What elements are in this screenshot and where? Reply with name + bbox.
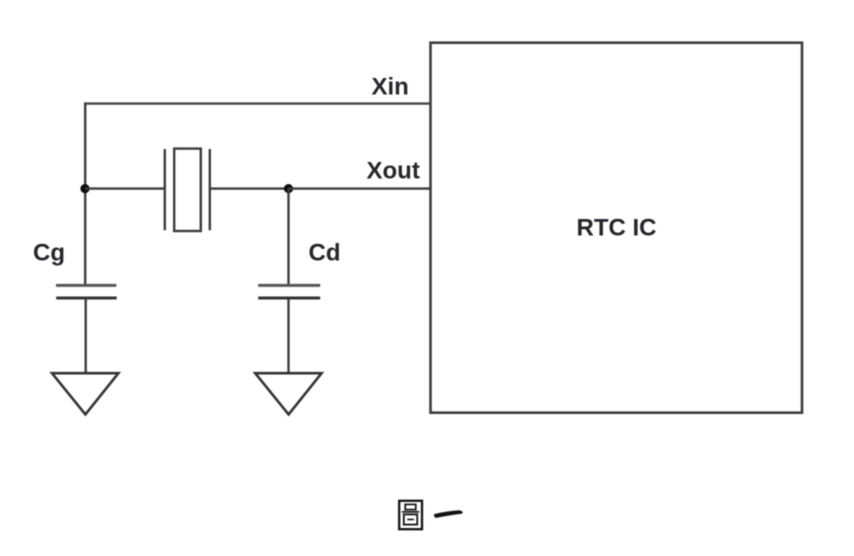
ground GND2 symbol bbox=[255, 373, 321, 414]
wire: node B down to capacitor Cd bbox=[287, 189, 289, 286]
wire: capacitor Cd to ground bbox=[287, 298, 289, 374]
node B junction dot bbox=[284, 184, 293, 193]
svg-text:Xin: Xin bbox=[372, 74, 409, 101]
capacitor Cg top plate bbox=[56, 284, 116, 287]
wire: left vertical segment joining Xin wire, node A and capacitor Cg bbox=[84, 102, 86, 285]
caption 圖一 (Figure 1): character 圖 enclosure bbox=[399, 501, 422, 529]
capacitor Cg bottom plate bbox=[56, 297, 116, 300]
capacitor Cd bottom plate bbox=[258, 297, 320, 300]
wire: crystal right electrode to node B bbox=[210, 187, 289, 189]
crystal X1 body bbox=[174, 149, 201, 231]
wire Xout net: node B to RTC IC bbox=[289, 187, 431, 189]
crystal X1 right electrode plate bbox=[209, 149, 211, 230]
capacitor Cd top plate bbox=[258, 284, 320, 287]
svg-text:Cg: Cg bbox=[33, 240, 65, 267]
node A junction dot bbox=[80, 184, 89, 193]
svg-text:RTC IC: RTC IC bbox=[577, 215, 657, 242]
caption 圖一 (Figure 1): character 一 stroke bbox=[435, 512, 461, 517]
wire: node A to crystal left electrode bbox=[85, 187, 165, 189]
wire: capacitor Cg to ground bbox=[84, 298, 86, 374]
crystal X1 left electrode plate bbox=[164, 149, 166, 230]
svg-text:Xout: Xout bbox=[367, 158, 420, 185]
ground GND1 symbol bbox=[52, 373, 118, 414]
wire Xin net: top horizontal from left corner to RTC IC bbox=[84, 102, 431, 104]
svg-text:Cd: Cd bbox=[309, 240, 341, 267]
RTC IC U1 body bbox=[431, 43, 803, 413]
